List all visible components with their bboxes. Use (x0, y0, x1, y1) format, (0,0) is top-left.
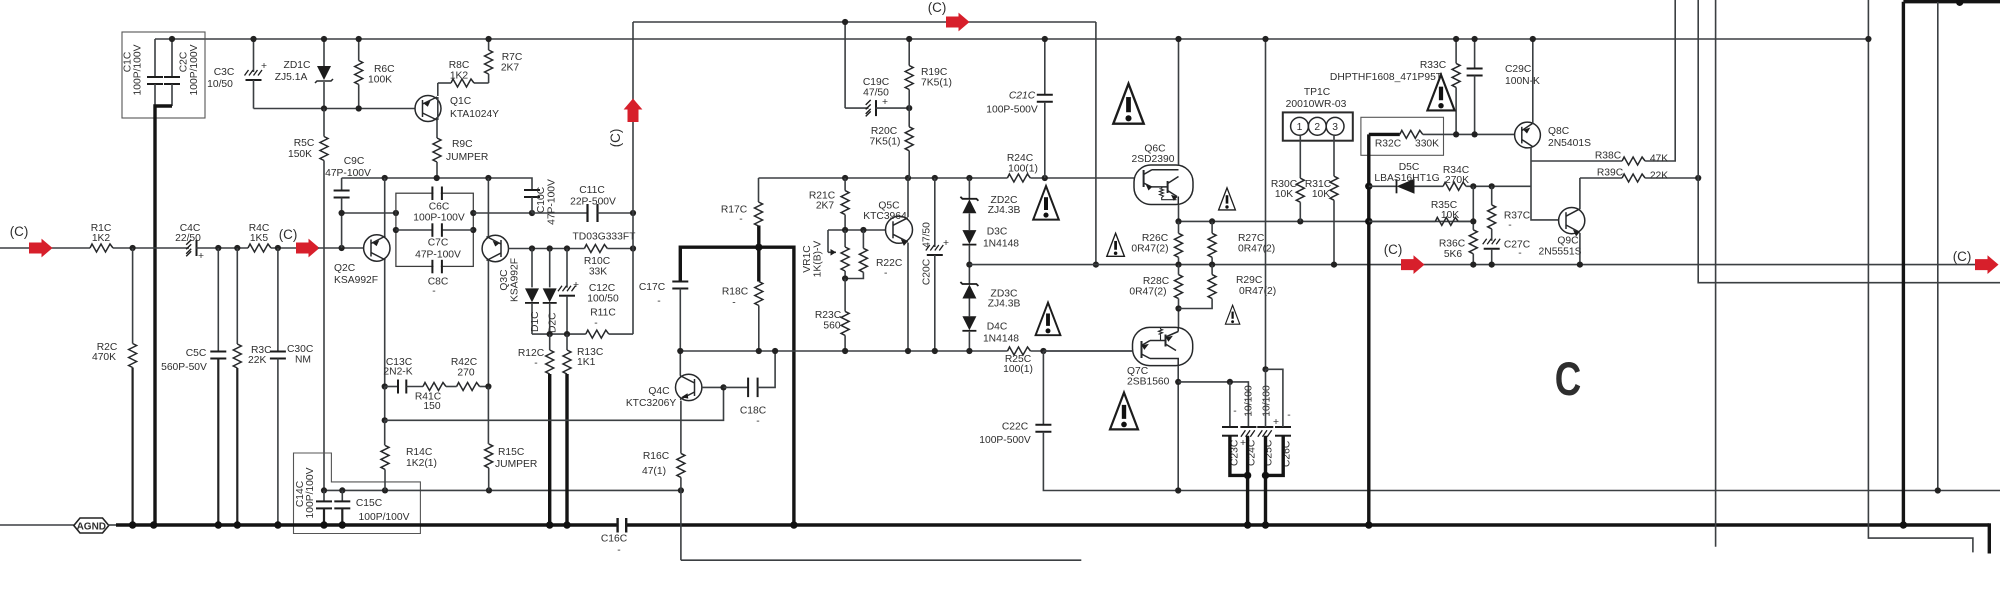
svg-text:R16C: R16C (643, 451, 670, 462)
wire box to C10C y213 (473, 212, 532, 214)
wire Q3C base row y248.5 (509, 248, 585, 250)
svg-text:R33C: R33C (1420, 60, 1447, 71)
svg-text:2N5551S: 2N5551S (1539, 247, 1582, 258)
svg-text:(C): (C) (10, 224, 29, 239)
svg-text:R27C: R27C (1238, 233, 1265, 244)
svg-text:C: C (1555, 353, 1581, 405)
capacitor C14C (323, 490, 325, 501)
resistor R24C (1007, 174, 1030, 182)
svg-text:C27C: C27C (1504, 240, 1531, 251)
svg-text:Q2C: Q2C (334, 263, 356, 274)
svg-text:Q5C: Q5C (878, 201, 900, 212)
wire Q7C collector down (1177, 366, 1179, 491)
wire Q1C base from C3C (254, 108, 416, 110)
svg-text:100(1): 100(1) (1003, 364, 1033, 375)
svg-text:47P-100V: 47P-100V (325, 168, 371, 179)
svg-text:R36C: R36C (1439, 239, 1466, 250)
svg-text:-: - (1518, 248, 1521, 259)
svg-text:D3C: D3C (987, 227, 1008, 238)
svg-text:C7C: C7C (428, 238, 449, 249)
svg-text:2N5401S: 2N5401S (1548, 138, 1591, 149)
svg-text:+: + (1240, 438, 1246, 449)
resistor R12C (549, 334, 551, 350)
resistor R6C (358, 39, 360, 61)
resistor R10C (584, 245, 607, 253)
capacitor C24C electrolytic (1240, 426, 1256, 428)
svg-text:JUMPER: JUMPER (446, 152, 488, 163)
transistor Q9C (1559, 208, 1585, 234)
capacitor C9C (341, 178, 343, 191)
wire Q5C emitter (907, 243, 909, 351)
svg-text:C15C: C15C (356, 498, 383, 509)
svg-text:C8C: C8C (428, 277, 449, 288)
capacitor C16C (618, 518, 627, 533)
svg-text:1K2: 1K2 (450, 71, 469, 82)
svg-text:R5C: R5C (294, 138, 315, 149)
svg-text:100P/100V: 100P/100V (133, 44, 144, 95)
svg-text:R18C: R18C (722, 287, 749, 298)
svg-text:Q9C: Q9C (1557, 236, 1579, 247)
svg-text:100N-K: 100N-K (1505, 76, 1540, 87)
diode D1C (531, 249, 533, 288)
resistor R20C (908, 108, 910, 127)
svg-text:100P-500V: 100P-500V (979, 435, 1031, 446)
svg-text:1K1: 1K1 (577, 357, 596, 368)
warning triangle (1219, 188, 1236, 210)
svg-text:R32C: R32C (1375, 139, 1402, 150)
wire (29, 239, 53, 258)
svg-text:ZD1C: ZD1C (284, 60, 311, 71)
capacitor C25C electrolytic (1257, 426, 1273, 428)
capacitor C20C electrolytic (934, 178, 936, 247)
resistor R5C (323, 109, 325, 137)
svg-text:330K: 330K (1415, 139, 1439, 150)
capacitor C15C (341, 490, 343, 501)
wire vertical x1698 feedback (1698, 0, 2000, 283)
svg-text:100/50: 100/50 (587, 294, 619, 305)
svg-text:-: - (1508, 220, 1511, 231)
svg-text:KSA992F: KSA992F (334, 275, 378, 286)
svg-text:C21C: C21C (1009, 91, 1036, 102)
zener ZD2C (968, 178, 970, 198)
capacitor C4C electrolytic (186, 240, 196, 256)
wire vertical x633 rail1 feed (632, 22, 634, 334)
wire C14C/C15C top y490.4 (324, 489, 681, 491)
svg-text:TD03G333FT: TD03G333FT (573, 232, 637, 243)
wire R5C down to C14C (323, 161, 325, 491)
resistor R8C (474, 82, 489, 84)
svg-text:JUMPER: JUMPER (495, 459, 537, 470)
resistor R42C (457, 383, 480, 391)
svg-text:D1C: D1C (530, 311, 541, 332)
svg-text:+: + (261, 61, 267, 72)
svg-text:1K2(1): 1K2(1) (406, 458, 437, 469)
resistor R28C (1178, 265, 1180, 275)
svg-text:100P-500V: 100P-500V (986, 105, 1038, 116)
resistor R27C (1211, 221, 1213, 233)
svg-text:2N2-K: 2N2-K (383, 367, 412, 378)
resistor R31C (1333, 135, 1335, 176)
capacitor C29C (1474, 39, 1476, 69)
svg-text:KTC3206Y: KTC3206Y (626, 398, 677, 409)
svg-text:R7C: R7C (502, 52, 523, 63)
resistor R4C (248, 244, 271, 252)
svg-text:R20C: R20C (871, 126, 898, 137)
transistor Q2C (364, 235, 390, 261)
svg-text:(C): (C) (1953, 249, 1972, 264)
svg-text:Q7C: Q7C (1127, 366, 1149, 377)
svg-text:2: 2 (1314, 122, 1320, 133)
transistor Q6C darlington (1134, 165, 1193, 205)
svg-text:-: - (432, 286, 435, 297)
zener ZD1C (323, 39, 325, 66)
node C1C/C2C top junction (169, 36, 175, 42)
wire C25C/C26C top feed (1265, 39, 1267, 369)
svg-text:ZJ5.1A: ZJ5.1A (275, 72, 308, 83)
svg-text:3: 3 (1332, 122, 1338, 133)
svg-text:R17C: R17C (721, 205, 748, 216)
svg-text:R29C: R29C (1236, 275, 1263, 286)
svg-text:LBAS16HT1G: LBAS16HT1G (1374, 173, 1439, 184)
svg-text:Q1C: Q1C (450, 96, 472, 107)
capacitor C11C (532, 212, 588, 214)
svg-text:0R47(2): 0R47(2) (1129, 287, 1166, 298)
svg-text:1K2: 1K2 (92, 233, 111, 244)
svg-text:ZJ4.3B: ZJ4.3B (988, 205, 1021, 216)
capacitor C27C electrolytic (1483, 239, 1501, 249)
svg-text:150K: 150K (288, 149, 312, 160)
wire C9C to base (341, 213, 343, 248)
connector TP1C (1283, 112, 1353, 140)
svg-text:(C): (C) (608, 129, 623, 148)
svg-text:C2C: C2C (179, 51, 190, 72)
capacitor C2C (171, 39, 173, 77)
svg-text:R9C: R9C (452, 139, 473, 150)
svg-text:10/50: 10/50 (207, 79, 233, 90)
svg-text:R12C: R12C (518, 348, 545, 359)
svg-text:+: + (573, 280, 579, 291)
svg-text:0R47(2): 0R47(2) (1238, 244, 1275, 255)
svg-text:C18C: C18C (740, 406, 767, 417)
svg-text:R42C: R42C (451, 357, 478, 368)
svg-text:Q4C: Q4C (648, 386, 670, 397)
resistor R39C (1580, 177, 1622, 179)
svg-text:0R47(2): 0R47(2) (1131, 244, 1168, 255)
transistor Q4C (676, 374, 702, 400)
svg-text:10/100: 10/100 (1244, 385, 1255, 417)
wire Q5C collector (907, 178, 909, 217)
wire bottom y560.2 (681, 559, 1081, 561)
zener ZD3C (960, 282, 978, 299)
svg-text:2SB1560: 2SB1560 (1127, 377, 1170, 388)
svg-text:470K: 470K (92, 352, 116, 363)
svg-text:R14C: R14C (406, 447, 433, 458)
diode D5C (1369, 185, 1397, 187)
capacitor C7C (396, 229, 433, 231)
resistor R14C (384, 420, 386, 445)
resistor R15C (487, 387, 489, 444)
svg-text:R10C: R10C (584, 256, 611, 267)
warning triangle (1427, 75, 1454, 111)
svg-text:1K(B)-V: 1K(B)-V (813, 241, 824, 278)
svg-text:10K: 10K (1275, 189, 1293, 200)
svg-text:+: + (943, 238, 949, 249)
wire Q8C collector (1532, 39, 1534, 124)
svg-text:100(1): 100(1) (1008, 164, 1038, 175)
wire (296, 239, 320, 258)
svg-text:-: - (884, 268, 887, 279)
svg-text:10K: 10K (1441, 210, 1459, 221)
svg-text:7K5(1): 7K5(1) (870, 137, 901, 148)
warning triangle (1110, 393, 1138, 430)
resistor R21C (844, 178, 846, 191)
capacitor C30C (277, 248, 279, 352)
wire Q4C base link (702, 386, 724, 388)
svg-text:100P-100V: 100P-100V (413, 213, 465, 224)
svg-text:D4C: D4C (987, 322, 1008, 333)
svg-text:DHPTHF1608_471P95T: DHPTHF1608_471P95T (1330, 72, 1443, 83)
svg-text:C20C: C20C (922, 258, 933, 285)
resistor R2C (132, 248, 134, 344)
svg-text:C16C: C16C (601, 534, 628, 545)
svg-text:10/100: 10/100 (1262, 385, 1273, 417)
transistor Q5C (886, 216, 913, 243)
svg-text:100P/100V: 100P/100V (189, 44, 200, 95)
svg-text:ZJ4.3B: ZJ4.3B (988, 299, 1021, 310)
svg-text:R38C: R38C (1595, 151, 1622, 162)
svg-text:47/50: 47/50 (922, 222, 933, 248)
svg-text:R15C: R15C (498, 447, 525, 458)
svg-text:100K: 100K (368, 75, 392, 86)
warning triangle (1107, 233, 1125, 256)
svg-text:C19C: C19C (863, 77, 890, 88)
wire thick node R17C/R18C/C17C (680, 247, 794, 525)
resistor R35C (1369, 220, 1436, 222)
resistor R26C (1178, 221, 1180, 233)
svg-text:KTC3964: KTC3964 (863, 211, 907, 222)
resistor R41C (423, 383, 446, 391)
resistor R37C (1491, 186, 1493, 205)
wire mid rail right y178 (759, 177, 1008, 179)
warning triangle (1036, 303, 1061, 336)
resistor R18C (755, 282, 763, 306)
svg-text:150: 150 (423, 401, 440, 412)
svg-text:22K: 22K (1650, 171, 1668, 182)
svg-text:7K5(1): 7K5(1) (921, 78, 952, 89)
resistor R38C (1531, 160, 1622, 162)
resistor R1C (90, 244, 113, 252)
svg-text:1K5: 1K5 (250, 233, 269, 244)
wire Q7C base (1043, 350, 1132, 352)
svg-text:C6C: C6C (429, 202, 450, 213)
svg-text:Q6C: Q6C (1144, 144, 1166, 155)
capacitor C22C (1042, 351, 1044, 425)
svg-text:2K7: 2K7 (816, 201, 835, 212)
svg-text:270K: 270K (1445, 175, 1469, 186)
box around C1C C2C (122, 32, 205, 118)
wire main input y248 (0, 247, 90, 249)
wire cap brackets (1230, 436, 1248, 476)
svg-text:47P-100V: 47P-100V (415, 250, 461, 261)
svg-text:KSA992F: KSA992F (510, 258, 521, 302)
resistor R23C (844, 279, 846, 312)
svg-text:47(1): 47(1) (642, 466, 666, 477)
resistor R33C (1455, 39, 1457, 63)
svg-text:560: 560 (823, 321, 840, 332)
svg-text:5K6: 5K6 (1444, 249, 1463, 260)
capacitor C13C (382, 383, 388, 389)
svg-text:20010WR-03: 20010WR-03 (1286, 99, 1347, 110)
capacitor C26C (1275, 427, 1291, 436)
svg-text:C5C: C5C (186, 348, 207, 359)
resistor R7C (488, 39, 490, 50)
svg-text:+: + (198, 251, 204, 262)
svg-text:-: - (657, 296, 660, 307)
svg-text:C22C: C22C (1002, 422, 1029, 433)
wire thick top right (1903, 0, 2000, 3)
wire Q3C emitter (487, 178, 489, 237)
svg-text:NM: NM (295, 355, 311, 366)
svg-text:2K7: 2K7 (501, 63, 520, 74)
capacitor C1C (154, 39, 156, 77)
capacitor C19C electrolytic (844, 22, 846, 108)
svg-text:D2C: D2C (548, 312, 559, 333)
wire Q2C collector (384, 260, 386, 387)
wire emitter row y381.9 (1178, 382, 1248, 427)
resistor R36C (1472, 186, 1474, 230)
wire C9C bottom link y213 (342, 212, 396, 214)
resistor R17C (758, 178, 760, 202)
resistor R3C (236, 248, 238, 344)
resistor R16C (680, 401, 682, 454)
wire Q3C collector (487, 260, 489, 386)
wire thick ground stub from C1C/C2C (155, 106, 172, 525)
warning triangle (1033, 186, 1059, 220)
capacitor C5C (217, 248, 219, 352)
svg-text:AGND: AGND (77, 521, 106, 532)
wire Q6C emitter row y221.4 (1178, 205, 1180, 222)
svg-text:22P-500V: 22P-500V (570, 197, 616, 208)
resistor R19C (908, 39, 910, 66)
resistor R34C (1443, 182, 1466, 190)
svg-text:-: - (756, 416, 759, 427)
svg-text:47P-100V: 47P-100V (547, 179, 558, 225)
wire Q5C base row y230 (828, 229, 886, 231)
svg-text:-: - (1233, 406, 1236, 417)
svg-text:C30C: C30C (287, 344, 314, 355)
wire Q8C emitter chain (1531, 147, 1559, 220)
svg-text:(C): (C) (928, 0, 947, 15)
svg-text:33K: 33K (589, 267, 607, 278)
svg-text:R39C: R39C (1597, 168, 1624, 179)
svg-text:-: - (617, 545, 620, 556)
svg-text:VR1C: VR1C (802, 245, 813, 273)
capacitor C17C (672, 282, 688, 289)
svg-text:R24C: R24C (1007, 153, 1034, 164)
wire mid rail left y178 (342, 178, 532, 190)
svg-text:R19C: R19C (921, 67, 948, 78)
svg-text:KTA1024Y: KTA1024Y (450, 109, 499, 120)
svg-text:R23C: R23C (815, 310, 842, 321)
svg-text:100P/100V: 100P/100V (359, 512, 410, 523)
warning triangle (1113, 84, 1143, 124)
resistor R29C (1211, 265, 1213, 275)
wire thick bias feed (1367, 134, 1370, 525)
svg-text:10K: 10K (1312, 189, 1330, 200)
diode D4C (962, 316, 976, 331)
svg-text:D5C: D5C (1399, 162, 1420, 173)
capacitor C6C (434, 188, 441, 199)
svg-text:270: 270 (457, 368, 474, 379)
svg-text:Q3C: Q3C (499, 269, 510, 291)
svg-text:C29C: C29C (1505, 64, 1532, 75)
svg-text:22K: 22K (248, 355, 266, 366)
resistor R32C (1369, 133, 1400, 136)
svg-text:-: - (1287, 410, 1290, 421)
capacitor C12C electrolytic (566, 249, 568, 288)
svg-text:-: - (739, 214, 742, 225)
svg-text:C12C: C12C (589, 283, 616, 294)
svg-text:1N4148: 1N4148 (983, 239, 1019, 250)
svg-text:0R47(2): 0R47(2) (1239, 286, 1276, 297)
wire vertical x1868 (1868, 0, 1973, 552)
svg-text:C3C: C3C (214, 67, 235, 78)
wire Q4C collector (679, 351, 681, 376)
wire top rail2 y39 (155, 38, 1869, 40)
resistor R25C (1008, 347, 1031, 355)
svg-text:R26C: R26C (1142, 233, 1169, 244)
svg-text:(C): (C) (279, 227, 298, 242)
box around R32C (1361, 117, 1444, 155)
wire Q9C collector (1579, 178, 1581, 209)
svg-text:1N4148: 1N4148 (983, 334, 1019, 345)
box around C14C C15C (294, 453, 421, 534)
resistor R11C (532, 333, 586, 335)
svg-text:R22C: R22C (876, 258, 903, 269)
svg-text:-: - (732, 298, 735, 309)
wire top rail1 y22 (633, 21, 1096, 23)
wire vertical x1937.8 (1937, 2, 1939, 491)
resistor R13C (566, 334, 568, 350)
svg-text:C9C: C9C (344, 156, 365, 167)
wire mid row y351 (680, 350, 1007, 352)
capacitor C21C (1044, 39, 1046, 95)
wire Q6C collector (1178, 39, 1180, 165)
svg-text:C17C: C17C (639, 282, 666, 293)
warning triangle (1225, 305, 1239, 324)
resistor R30C (1299, 135, 1301, 178)
svg-text:22/50: 22/50 (175, 233, 201, 244)
diode D3C (962, 230, 976, 245)
svg-text:(C): (C) (1384, 242, 1403, 257)
svg-text:R11C: R11C (590, 308, 616, 319)
svg-text:TP1C: TP1C (1304, 87, 1331, 98)
transistor Q1C (415, 96, 441, 122)
svg-text:100P/100V: 100P/100V (305, 467, 316, 518)
resistor R22C (862, 230, 864, 248)
wire rail1 to output node (1095, 22, 1097, 265)
svg-text:2SD2390: 2SD2390 (1132, 154, 1175, 165)
wire output row y264.6 (969, 264, 1976, 266)
resistor R9C (433, 138, 441, 162)
svg-text:1: 1 (1297, 122, 1303, 133)
svg-text:C10C: C10C (536, 186, 547, 213)
svg-text:47K: 47K (1650, 154, 1668, 165)
svg-text:+: + (882, 97, 888, 108)
svg-text:R8C: R8C (449, 60, 470, 71)
transistor Q7C darlington (1133, 327, 1193, 365)
svg-text:R28C: R28C (1143, 276, 1170, 287)
